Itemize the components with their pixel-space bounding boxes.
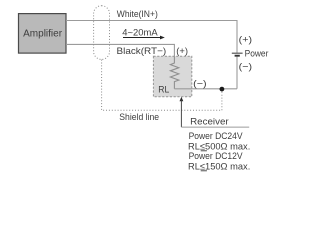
svg-text:Power: Power [245,48,269,59]
receiver label underline [181,126,249,128]
receiver load box (shaded) [153,56,191,97]
svg-text:Amplifier: Amplifier [23,28,63,39]
svg-text:(+): (+) [176,46,188,57]
wire black RT- (bottom, to RL box) [66,44,174,56]
battery BT1 (Power) long plate + [232,52,243,54]
receiver leader arrow [180,97,184,101]
wire (-) from RL to battery - [174,57,237,89]
svg-text:Receiver: Receiver [190,116,229,127]
svg-text:White(IN+): White(IN+) [117,9,158,20]
extra bar for JIS less-equal (150 line) [201,170,207,172]
shield drain wire (dotted) to junction node [102,60,222,111]
svg-text:(+): (+) [239,34,252,45]
extra bar for JIS less-equal (500 line) [201,150,207,152]
amplifier box U1 [19,14,67,54]
svg-text:Shield line: Shield line [119,112,159,123]
junction node (shield drain to minus wire) [220,87,225,92]
svg-text:(−): (−) [239,62,252,73]
svg-text:Black(RT−): Black(RT−) [117,46,167,57]
svg-text:RL: RL [158,85,169,96]
resistor RL zigzag [170,56,178,89]
svg-text:RL≤150Ω max.: RL≤150Ω max. [188,161,250,172]
battery BT1 short plate - [235,55,240,57]
current direction arrow [123,37,160,39]
svg-text:(−): (−) [193,79,207,90]
svg-text:4~20mA: 4~20mA [122,27,158,38]
wire white IN+ (top, to battery +) [66,21,237,53]
shield ellipse around cable [94,6,110,60]
